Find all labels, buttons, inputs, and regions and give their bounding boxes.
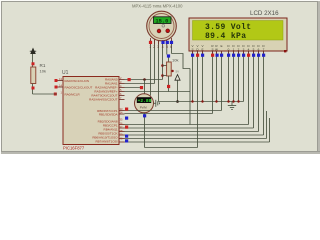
- LCD module LM016L body: [189, 18, 287, 51]
- junction power arrow to ground line: [176, 100, 179, 103]
- gauge pin leads: [151, 38, 172, 45]
- junction dots resistor R2 taps: [161, 64, 164, 67]
- gauge green display: [154, 17, 172, 25]
- ground net horizontal: [159, 101, 244, 103]
- sheet background: [0, 0, 320, 154]
- pressure sensor U2 MPX4115 body: [147, 11, 177, 41]
- gauge pin5 blue indicator: [166, 41, 169, 44]
- resistor R2: [167, 57, 179, 92]
- gauge button up: [157, 29, 161, 33]
- svg-text:RB1/SDI/SDA: RB1/SDI/SDA: [99, 112, 118, 116]
- LCD corner dot: [284, 50, 286, 52]
- wire extra column A: [266, 111, 268, 139]
- power arrow VCC left: [30, 48, 36, 55]
- svg-text:2: 2: [238, 47, 240, 51]
- svg-text:E: E: [220, 44, 222, 48]
- junction dot right of R2: [171, 70, 173, 72]
- wire D7 net: [125, 134, 264, 136]
- chip right pin labels: [89, 78, 118, 144]
- svg-text:PV/M: PV/M: [140, 106, 148, 110]
- ground symbol: [228, 101, 236, 109]
- wire E net: [125, 110, 222, 112]
- bus wires chip to LCD staircase: [125, 111, 270, 143]
- wire gauge pin6 column: [171, 40, 173, 54]
- chip right pin stubs: [119, 80, 125, 143]
- gauge pin1 red indicator: [149, 41, 152, 44]
- wire gauge pin6 dogleg to column x190: [172, 54, 191, 69]
- gauge button down: [166, 29, 170, 33]
- wire RW column: [216, 51, 218, 102]
- svg-text:3.59 Volt: 3.59 Volt: [205, 23, 251, 32]
- indicator on R2 top: [167, 54, 170, 57]
- wire meter bottom column: [144, 113, 146, 148]
- wire D4 column: [248, 51, 250, 125]
- svg-text:RA5/AN4/SS/C2OUT: RA5/AN4/SS/C2OUT: [89, 98, 118, 102]
- svg-text:U1: U1: [62, 70, 69, 76]
- wire RS net: [125, 113, 213, 115]
- chip right pin indicator squares: [125, 108, 128, 143]
- gauge pin numbers: [149, 45, 172, 49]
- wire D1 column: [233, 51, 235, 102]
- svg-text:89.4 kPa: 89.4 kPa: [205, 32, 246, 41]
- wire extra net A: [125, 138, 267, 140]
- wire D4 net: [125, 124, 249, 126]
- wire VEE column: [202, 51, 204, 102]
- indicator MCLR pin: [54, 93, 57, 96]
- junction dots on ground net: [191, 100, 239, 102]
- svg-text:10k: 10k: [172, 58, 178, 63]
- power arrow VCC right: [175, 75, 180, 102]
- indicator on RA2 wire: [140, 86, 143, 89]
- svg-text:10k: 10k: [40, 69, 46, 74]
- wire MCLR horizontal: [33, 93, 58, 95]
- svg-text:S: S: [191, 47, 193, 51]
- junction RA0/meter: [143, 78, 146, 81]
- wire D6 column: [258, 51, 260, 132]
- wire VDD column: [197, 51, 199, 148]
- chip left pin indicators: [55, 79, 58, 82]
- resistor R2 branch stubs: [163, 65, 167, 67]
- wire RA2 row: [125, 87, 144, 89]
- svg-text:4: 4: [248, 47, 250, 51]
- svg-text:2: 2: [153, 45, 155, 49]
- svg-text:R1: R1: [40, 63, 46, 68]
- svg-text:5: 5: [253, 47, 255, 51]
- svg-text:E: E: [201, 47, 203, 51]
- digital voltmeter body: [135, 94, 154, 113]
- LCD screen: [193, 21, 284, 41]
- svg-text:5: 5: [166, 45, 168, 49]
- wire meter top column: [144, 80, 146, 95]
- gauge pin4 blue indicator: [161, 41, 164, 44]
- svg-text:S: S: [211, 47, 213, 51]
- chip left pin stubs: [57, 81, 63, 88]
- svg-text:+2.88: +2.88: [138, 98, 152, 104]
- wire VSS column: [192, 51, 194, 102]
- wire D0 column: [228, 51, 230, 102]
- wire RS column: [212, 51, 214, 114]
- wire D5 column: [253, 51, 255, 128]
- LCD pin stubs: [193, 51, 264, 54]
- svg-text:4: 4: [162, 45, 164, 49]
- svg-text:5V: 5V: [176, 70, 180, 74]
- wire gauge pin6 down column: [189, 69, 191, 125]
- wire gauge pin5 column: [166, 40, 168, 55]
- svg-text:PIC16F877: PIC16F877: [63, 146, 85, 151]
- wire gauge pin4 column: [162, 40, 164, 80]
- wire D2 column: [238, 51, 240, 102]
- microcontroller U1 PIC16F877: [62, 70, 119, 151]
- wire RA0 row to sensor net: [125, 79, 163, 81]
- wire gauge pin2 column: [154, 40, 156, 84]
- wire RA1 row: [125, 83, 155, 85]
- svg-text:RA0/OSC1/CLKIN: RA0/OSC1/CLKIN: [65, 79, 90, 83]
- chip left pin labels: [65, 79, 93, 97]
- LCD pin wires down: [193, 51, 270, 148]
- svg-text:7: 7: [263, 47, 265, 51]
- svg-text:0: 0: [228, 47, 230, 51]
- wire D6 net: [125, 131, 259, 133]
- indicator meter bottom: [143, 114, 146, 117]
- svg-text:6: 6: [258, 47, 260, 51]
- indicator on R2 bottom: [167, 85, 170, 88]
- wire gauge pin1 column: [150, 40, 152, 96]
- gauge top small ring: [162, 25, 165, 28]
- svg-text:3: 3: [243, 47, 245, 51]
- svg-text:1: 1: [233, 47, 235, 51]
- meter right stub: [154, 102, 156, 104]
- resistor R1: [31, 54, 46, 94]
- wire VDD U horizontal: [145, 147, 198, 149]
- gauge pin6 blue indicator: [170, 41, 173, 44]
- rotated ground symbol at meter: [156, 100, 160, 107]
- LCD pin indicator squares: [191, 54, 265, 57]
- wire E column: [221, 51, 223, 111]
- svg-text:MPX-4115 типа MPX-4100: MPX-4115 типа MPX-4100: [132, 4, 183, 9]
- wire D7 column: [263, 51, 265, 135]
- LCD pin name strip: [191, 44, 265, 52]
- wire D5 net: [125, 127, 254, 129]
- svg-text:15.0: 15.0: [155, 19, 168, 25]
- wire extra net K: [125, 141, 270, 143]
- svg-text:RA0/MCLR: RA0/MCLR: [65, 92, 81, 96]
- svg-text:3: 3: [157, 45, 159, 49]
- chip pin numbers left: [59, 77, 62, 95]
- chip pin numbers right: [120, 76, 123, 141]
- svg-text:LCD 2X16: LCD 2X16: [250, 10, 279, 17]
- wire D3 column: [243, 51, 245, 102]
- svg-text:W: W: [215, 47, 218, 51]
- wire gauge pin3 column: [158, 40, 160, 102]
- wire extra column K: [269, 118, 271, 142]
- svg-text:6: 6: [170, 45, 172, 49]
- wire RA3 row to power arrow net: [125, 91, 191, 93]
- svg-text:RB7/AN9/T1OSI: RB7/AN9/T1OSI: [95, 139, 117, 143]
- svg-text:RA0/OSC2/CLKOUT: RA0/OSC2/CLKOUT: [65, 85, 93, 89]
- indicator on RA0 wire: [128, 78, 131, 81]
- border frame: [0, 0, 320, 154]
- svg-text:1: 1: [149, 45, 151, 49]
